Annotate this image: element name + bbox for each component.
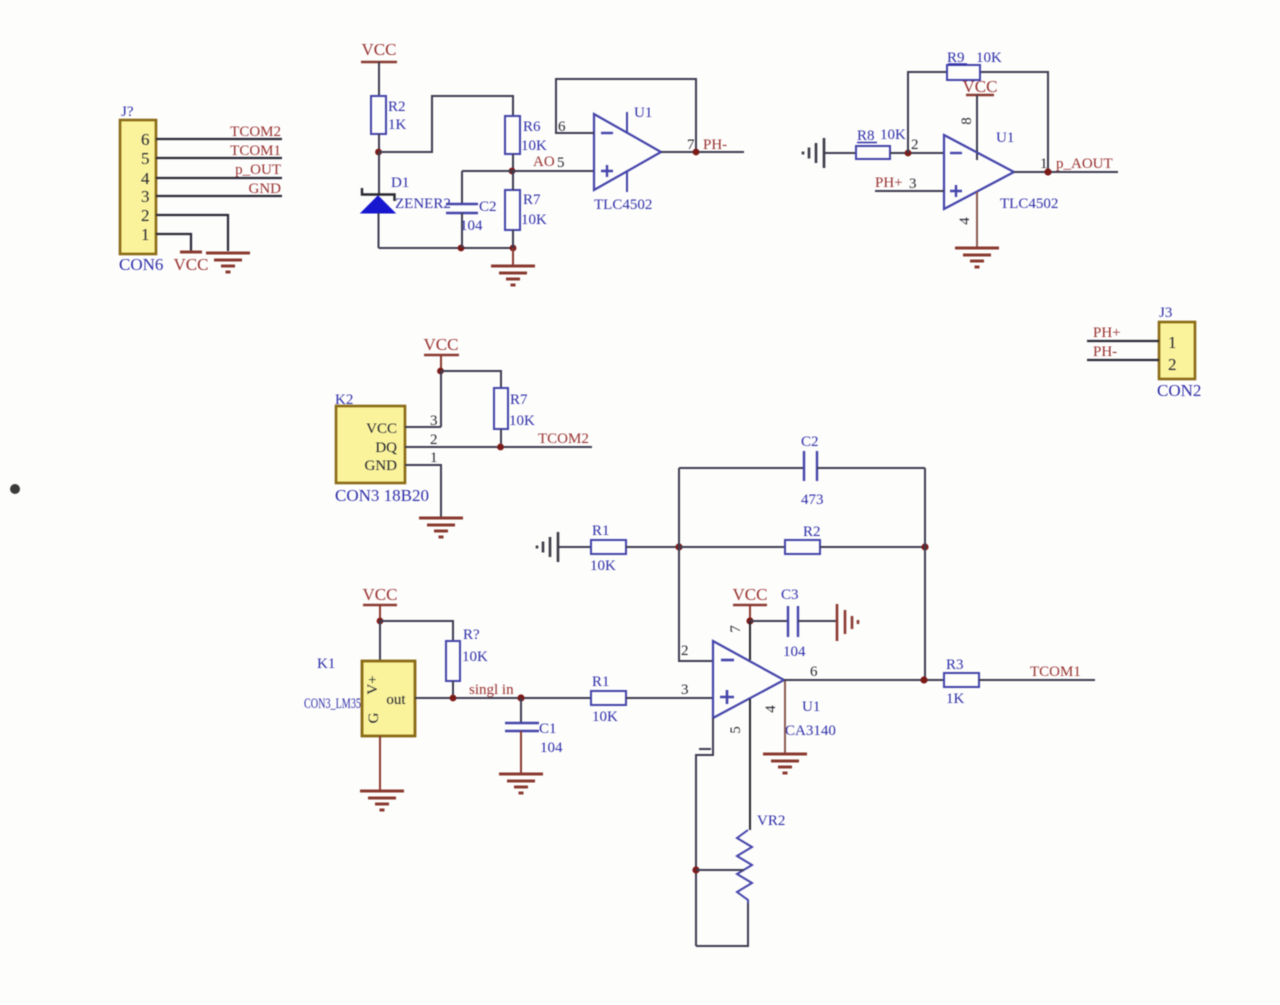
node pin7 / C3	[746, 617, 753, 624]
node R?b / out	[450, 695, 457, 702]
svg-text:p_AOUT: p_AOUT	[1056, 156, 1113, 172]
svg-text:TLC4502: TLC4502	[594, 197, 652, 213]
svg-text:1: 1	[141, 225, 150, 244]
resistor R2 1K	[371, 96, 407, 134]
wire VCC into K1	[379, 621, 381, 661]
svg-text:TCOM2: TCOM2	[538, 431, 589, 447]
connector J? CON6 box	[119, 104, 163, 274]
svg-text:8: 8	[959, 117, 975, 125]
svg-text:6: 6	[810, 664, 818, 680]
svg-text:10K: 10K	[509, 413, 535, 429]
wire bottom rail of zener reference	[379, 247, 514, 249]
resistor R3 1K	[944, 657, 979, 707]
svg-text:VCC: VCC	[424, 335, 459, 354]
svg-text:104: 104	[460, 218, 483, 234]
wire R6 to node AO	[512, 154, 514, 171]
pin 2 wire K2 net TCOM2	[405, 431, 592, 448]
wire K1 bottom to ground	[379, 736, 381, 790]
op-amp U1 TLC4502 (pH amp)	[944, 130, 1058, 212]
svg-text:VCC: VCC	[733, 585, 768, 604]
svg-text:104: 104	[783, 644, 806, 660]
svg-text:2: 2	[911, 137, 919, 153]
node VCC K1	[377, 618, 384, 625]
svg-text:C2: C2	[479, 199, 497, 215]
connector K1 CON3_LM35	[304, 656, 415, 736]
svg-text:out: out	[386, 692, 406, 708]
svg-text:K1: K1	[317, 656, 335, 672]
wire wiper to VR2	[696, 869, 744, 871]
resistor R7 10K	[505, 190, 547, 230]
wire R7 top	[512, 171, 514, 190]
resistor R8 10K	[856, 127, 906, 159]
ground symbol below K1	[360, 791, 404, 810]
svg-text:singl in: singl in	[469, 682, 514, 698]
svg-text:R2: R2	[803, 524, 821, 540]
wire VR2 bottom loop	[696, 903, 748, 946]
svg-text:TCOM1: TCOM1	[1030, 664, 1081, 680]
svg-text:C3: C3	[781, 587, 799, 603]
resistor R1 10K (input of inverting stage)	[590, 523, 626, 574]
svg-text:4: 4	[763, 705, 779, 713]
wire left vertical feedback to pin 2	[679, 468, 713, 661]
svg-text:U1: U1	[996, 130, 1014, 146]
ground symbol left of R1a (sideways)	[537, 532, 591, 562]
svg-text:3: 3	[909, 176, 917, 192]
svg-text:10K: 10K	[521, 212, 547, 228]
svg-text:D1: D1	[391, 175, 409, 191]
resistor R1 10K (to + input)	[591, 674, 626, 725]
svg-text:R7: R7	[510, 392, 528, 408]
ground symbol right of C3 (sideways, mirrored)	[837, 604, 858, 641]
svg-text:VCC: VCC	[174, 255, 209, 274]
capacitor C2 104	[446, 171, 497, 248]
node C1 / out	[517, 694, 524, 701]
wire pin 4 to ground	[957, 192, 977, 247]
svg-text:AO: AO	[533, 154, 555, 170]
svg-text:R3: R3	[946, 657, 964, 673]
ground symbol at J? pin 2	[206, 253, 250, 272]
svg-text:1: 1	[430, 450, 438, 466]
pin 5 wire down to VR2	[728, 699, 750, 830]
svg-text:7: 7	[687, 137, 695, 153]
ground symbol below U1b	[955, 248, 999, 267]
wire R2 to node	[378, 134, 380, 152]
pin 1 wire K2 to ground	[405, 450, 441, 517]
svg-text:U1: U1	[802, 699, 820, 715]
svg-text:VCC: VCC	[363, 585, 398, 604]
wire pin 1 to VCC	[156, 234, 191, 251]
node output U1c	[920, 676, 927, 683]
power VCC above K2	[424, 335, 459, 371]
decorative bullet dot left margin	[10, 484, 20, 494]
resistor R7 10K (pull-up)	[494, 388, 535, 429]
svg-text:3: 3	[681, 682, 689, 698]
svg-text:473: 473	[801, 492, 824, 508]
op-amp U1 TLC4502 (zener buffer)	[594, 105, 661, 213]
wire net GND from pin 3	[156, 181, 282, 197]
svg-text:2: 2	[141, 206, 150, 225]
ground symbol below U1c pin 4	[763, 754, 807, 773]
node VCC K2	[437, 368, 444, 375]
svg-text:1K: 1K	[946, 691, 965, 707]
svg-text:VCC: VCC	[366, 421, 397, 437]
wire loop from node up over to R6	[379, 96, 514, 152]
wire VCC to R2	[378, 62, 380, 96]
pin 3 wire K2	[405, 413, 441, 429]
capacitor C3 104	[750, 587, 836, 660]
svg-text:VCC: VCC	[963, 77, 998, 96]
wire R3 to TCOM1	[979, 664, 1095, 680]
svg-text:R1: R1	[592, 523, 610, 539]
svg-text:10K: 10K	[592, 709, 618, 725]
wire node AO to op-amp + input	[462, 154, 594, 171]
svg-text:104: 104	[540, 740, 563, 756]
resistor R9 10K	[947, 50, 1002, 80]
svg-text:R6: R6	[523, 119, 541, 135]
svg-text:GND: GND	[249, 181, 282, 197]
node 2	[905, 150, 912, 157]
connector J3 CON2 box	[1157, 305, 1201, 400]
node output U1b	[1044, 168, 1051, 175]
svg-text:PH-: PH-	[1093, 344, 1117, 360]
power VCC at U1c pin 7	[733, 585, 768, 621]
pin 1 wire stepped down to wiper rail	[696, 718, 713, 946]
wire pin 4 to ground	[763, 681, 785, 753]
svg-text:CA3140: CA3140	[785, 723, 836, 739]
svg-text:GND: GND	[365, 458, 398, 474]
svg-text:VCC: VCC	[362, 40, 397, 59]
wire R7 to ground	[512, 230, 514, 248]
node VR2 wiper	[692, 866, 699, 873]
svg-text:C1: C1	[539, 721, 557, 737]
pin 7 wire into op-amp	[728, 621, 750, 660]
svg-text:1K: 1K	[388, 117, 407, 133]
svg-text:R1: R1	[592, 674, 610, 690]
wire net p_OUT from pin 4	[156, 162, 282, 178]
svg-text:5: 5	[557, 155, 565, 171]
zener diode D1 ZENER2	[361, 152, 451, 248]
wire output p_AOUT	[1014, 171, 1118, 173]
svg-text:10K: 10K	[590, 558, 616, 574]
svg-text:10K: 10K	[880, 127, 906, 143]
op-amp U1 CA3140	[713, 641, 836, 739]
wire right vertical feedback to output	[924, 468, 926, 680]
svg-text:5: 5	[728, 726, 744, 734]
wire net TCOM1 from pin 5	[156, 143, 282, 159]
svg-text:G: G	[366, 712, 382, 723]
capacitor C2 473 (feedback)	[679, 434, 925, 508]
resistor R? 10K (pull-up K1)	[446, 627, 488, 681]
wire net TCOM2 from pin 6	[156, 124, 282, 140]
wire VCC over to R?b	[380, 621, 453, 641]
node AO	[509, 168, 516, 175]
net label PH+ pin 3 wire	[875, 175, 944, 192]
svg-text:4: 4	[141, 169, 150, 188]
svg-text:5: 5	[141, 149, 150, 168]
svg-text:V+: V+	[365, 675, 381, 694]
wire out of K1 net singl in	[415, 682, 591, 698]
svg-text:10K: 10K	[462, 649, 488, 665]
wire R2b to output node	[820, 546, 925, 548]
svg-text:3: 3	[430, 413, 438, 429]
svg-text:J?: J?	[121, 104, 134, 120]
svg-text:C2: C2	[801, 434, 819, 450]
node DQ / R7b	[497, 444, 504, 451]
svg-text:10K: 10K	[976, 50, 1002, 66]
wire R7b to DQ node	[500, 429, 502, 447]
svg-text:U1: U1	[634, 105, 652, 121]
svg-text:3: 3	[141, 187, 150, 206]
svg-text:2: 2	[430, 432, 438, 448]
svg-text:J3: J3	[1159, 305, 1172, 321]
svg-text:CON3 18B20: CON3 18B20	[335, 486, 429, 505]
svg-text:6: 6	[141, 130, 150, 149]
node rail / R7 ground	[510, 245, 517, 252]
svg-text:TLC4502: TLC4502	[1000, 196, 1058, 212]
wire net PH+ to J3	[1087, 325, 1159, 341]
capacitor C1 104	[505, 698, 563, 773]
svg-text:DQ: DQ	[375, 440, 397, 456]
wire R?b to out node	[452, 681, 454, 698]
node output U1a	[693, 149, 700, 156]
svg-text:TCOM1: TCOM1	[230, 143, 281, 159]
ground symbol left of R8 (sideways)	[803, 138, 856, 168]
wire pin 2 to ground	[156, 215, 228, 251]
wire feedback pin6 loop	[556, 79, 696, 152]
svg-text:1: 1	[1168, 333, 1177, 352]
wire R8 to inverting input	[890, 152, 944, 154]
svg-text:R7: R7	[523, 192, 541, 208]
svg-text:K2: K2	[335, 392, 353, 408]
power VCC top-middle	[361, 40, 397, 62]
wire R1a to node	[626, 546, 679, 548]
svg-text:CON6: CON6	[119, 255, 163, 274]
wire net PH- to J3	[1087, 344, 1159, 360]
svg-text:R2: R2	[388, 99, 406, 115]
wire node to R2b	[679, 546, 785, 548]
svg-text:1: 1	[1040, 156, 1048, 172]
power VCC at U1b pin 8	[959, 77, 997, 160]
connector K2 CON3 18B20	[335, 392, 429, 505]
ground symbol below K2	[419, 518, 463, 537]
svg-text:2: 2	[1168, 355, 1177, 374]
svg-text:CON2: CON2	[1157, 381, 1201, 400]
svg-text:CON3_LM35: CON3_LM35	[304, 696, 361, 712]
resistor R2 (feedback)	[785, 524, 821, 554]
svg-text:TCOM2: TCOM2	[230, 124, 281, 140]
svg-text:7: 7	[728, 625, 744, 633]
resistor R6 10K	[505, 116, 547, 154]
svg-text:2: 2	[681, 643, 689, 659]
wire output row to R3	[784, 664, 944, 680]
wire R1b to + input	[626, 697, 713, 699]
node rail / C2	[458, 245, 465, 252]
potentiometer VR2	[737, 813, 785, 903]
node feedback right	[921, 543, 928, 550]
wire VCC down to pin 3	[440, 371, 442, 427]
svg-text:4: 4	[957, 217, 973, 225]
svg-text:10K: 10K	[521, 138, 547, 154]
svg-text:R8: R8	[857, 128, 875, 144]
power VCC above K1	[363, 585, 398, 621]
ground symbol below C1	[499, 774, 543, 793]
wire output to PH-	[661, 151, 744, 153]
node inverting input net	[675, 543, 682, 550]
svg-text:ZENER2: ZENER2	[395, 196, 451, 212]
svg-text:PH-: PH-	[703, 137, 727, 153]
wire feedback loop through R9	[908, 72, 1048, 172]
svg-text:R?: R?	[463, 627, 480, 643]
ground symbol below R7	[491, 266, 535, 285]
power VCC at J? pin 1	[174, 252, 209, 274]
svg-text:VR2: VR2	[757, 813, 785, 829]
svg-text:PH+: PH+	[1093, 325, 1121, 341]
svg-text:PH+: PH+	[875, 175, 903, 191]
node at R2/D1 junction	[375, 149, 382, 156]
wire VCC over to R7b	[441, 371, 501, 388]
svg-text:p_OUT: p_OUT	[235, 162, 281, 178]
